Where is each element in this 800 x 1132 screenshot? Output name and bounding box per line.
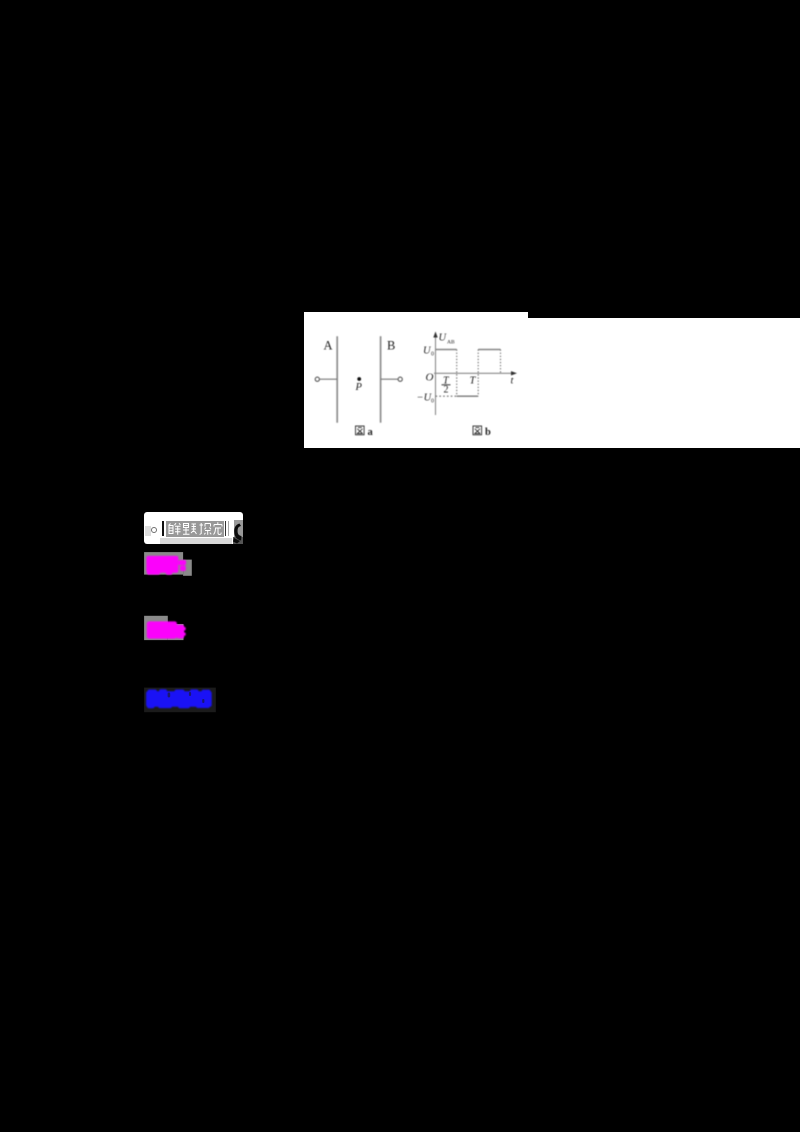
wire plate B to right terminal	[381, 378, 398, 380]
glyph 题	[183, 523, 197, 534]
high segment 2 (T to 3T/2)	[478, 349, 500, 351]
svg-text:B: B	[387, 339, 395, 353]
colon nubs on black	[183, 627, 186, 630]
dotted horizontal at -U0	[436, 395, 457, 397]
y axis arrowhead	[433, 332, 437, 338]
circuit/diagram SVG (figure a and figure b)	[304, 312, 800, 448]
double bar 1	[225, 521, 227, 536]
x axis	[434, 372, 515, 374]
解题探究 header tab	[144, 512, 243, 544]
low segment (T/2 to T)	[457, 395, 479, 397]
white scan panel right part	[528, 318, 800, 448]
magenta annotation block 1	[140, 548, 200, 582]
magenta blob main	[147, 621, 186, 638]
plate A	[336, 336, 338, 423]
right lower part	[177, 625, 185, 639]
gray backing right step	[183, 560, 192, 576]
dark gray block bottom right	[233, 537, 243, 544]
right terminal circle	[398, 377, 402, 381]
glyph 究	[213, 522, 222, 534]
dotted vertical at T	[477, 350, 479, 397]
small blob below extension	[180, 566, 186, 571]
svg-text:a: a	[368, 427, 374, 438]
texture notches in backing colour	[168, 692, 205, 703]
y axis	[435, 333, 437, 415]
single bar	[162, 521, 164, 536]
gray title box with drawn glyphs 解题探究	[166, 521, 224, 537]
gray backing left tall	[144, 616, 168, 640]
svg-text:AB: AB	[447, 340, 455, 346]
blue annotation block	[140, 683, 222, 717]
dotted vertical at 3T/2	[500, 350, 502, 374]
svg-text:O: O	[426, 372, 434, 384]
fraction bar	[442, 384, 451, 386]
svg-text:P: P	[355, 382, 363, 393]
white scan panel left part	[304, 312, 528, 448]
gray backing upper	[144, 552, 183, 575]
magenta blob main	[146, 556, 186, 575]
magenta annotation block 2	[140, 612, 200, 646]
point P dot	[357, 377, 361, 381]
dark backing	[144, 688, 216, 713]
double bar 2	[228, 521, 230, 536]
shadow strip bottom	[160, 538, 232, 544]
svg-text:0: 0	[431, 352, 434, 358]
high segment 1 (0 to T/2)	[436, 349, 457, 351]
x axis arrowhead	[511, 371, 517, 375]
caption 图 b	[473, 426, 482, 435]
dotted vertical at T/2	[456, 350, 458, 397]
svg-text:2: 2	[444, 385, 449, 396]
svg-text:0: 0	[431, 399, 434, 405]
glyph 探	[199, 523, 211, 535]
descender feet	[147, 571, 160, 575]
plate B	[380, 336, 382, 423]
small gray square left edge	[145, 526, 151, 536]
glyph 解	[168, 523, 180, 535]
svg-text:A: A	[324, 339, 333, 353]
svg-text:b: b	[485, 427, 491, 438]
blue glyph mass	[146, 689, 212, 708]
ring circle	[151, 527, 158, 534]
wire left terminal to plate A	[320, 378, 337, 380]
gray block right edge	[234, 520, 243, 537]
svg-text:t: t	[511, 376, 515, 387]
black hook curve	[232, 522, 243, 544]
left terminal circle	[315, 377, 319, 381]
gray backing right lower	[168, 624, 184, 640]
caption 图 a	[356, 426, 365, 435]
svg-text:T: T	[470, 376, 477, 387]
top-right extension bar	[178, 560, 186, 565]
